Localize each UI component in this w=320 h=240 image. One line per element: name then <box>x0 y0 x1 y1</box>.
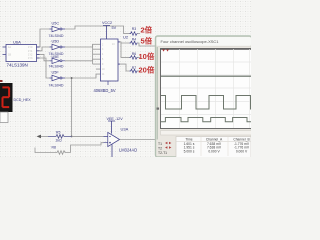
wire opamp output to scope <box>120 139 157 141</box>
svg-text:U3A: U3A <box>121 127 129 132</box>
svg-text:10倍: 10倍 <box>139 51 155 61</box>
svg-text:74LS04D: 74LS04D <box>49 34 64 38</box>
svg-text:T2: T2 <box>158 147 162 151</box>
wire U5F junction down to R5 node <box>71 78 73 136</box>
wire decoder pin1 to U5C input <box>37 29 50 47</box>
svg-text:1kΩ: 1kΩ <box>56 139 63 143</box>
VEE power symbol <box>107 117 124 134</box>
svg-text:VEE -12V: VEE -12V <box>107 117 124 121</box>
trace channel C square <box>161 118 251 122</box>
svg-text:R8: R8 <box>52 146 56 150</box>
svg-text:R5: R5 <box>56 131 60 135</box>
wire R5 node to opamp plus input <box>72 135 104 137</box>
svg-text:U5E: U5E <box>52 55 60 59</box>
wire U2 left pin bus <box>93 44 101 69</box>
wire R8 to opamp minus input <box>71 143 104 153</box>
wire U5E output to U2 <box>65 59 101 61</box>
trace channel A flat <box>161 75 251 77</box>
svg-text:U6A: U6A <box>13 40 21 45</box>
wire R4 right to scope <box>138 43 157 46</box>
resistor R8 <box>35 146 71 155</box>
svg-text:R6: R6 <box>132 52 136 56</box>
svg-text:LM324AD: LM324AD <box>119 148 137 153</box>
scope scrollbar <box>161 131 252 136</box>
resistor R6 <box>130 52 138 59</box>
resistor R3 <box>130 27 138 35</box>
inverter U5E <box>49 55 66 68</box>
schematic background <box>0 0 251 157</box>
svg-text:1Y3: 1Y3 <box>28 57 33 60</box>
wire opamp output rising along window edge <box>156 47 158 140</box>
svg-text:5倍: 5倍 <box>141 36 153 46</box>
svg-text:0.000 V: 0.000 V <box>236 150 248 154</box>
graph grid <box>161 49 251 128</box>
cursor marker T1 <box>162 50 165 52</box>
op-amp U3A <box>104 127 138 158</box>
svg-text:U5F: U5F <box>52 70 60 74</box>
chip U2 4068BD <box>94 34 129 93</box>
wire U5C output top route to R3 <box>65 26 130 34</box>
wire U2 right pin to R7 <box>118 64 130 71</box>
oscilloscope window XSC1 <box>156 36 252 157</box>
svg-text:Four channel oscilloscope-XSC1: Four channel oscilloscope-XSC1 <box>161 39 220 44</box>
svg-text:Channel_B: Channel_B <box>233 137 250 141</box>
svg-text:1Y2: 1Y2 <box>28 53 33 56</box>
wire branch to R6 <box>121 43 130 57</box>
svg-text:1B: 1B <box>8 53 11 56</box>
inverter U5C <box>49 22 66 39</box>
scope graph area <box>161 49 252 129</box>
svg-text:1Y0: 1Y0 <box>28 46 33 49</box>
svg-text:74LS04D: 74LS04D <box>49 64 64 68</box>
resistor R5 <box>48 131 72 143</box>
svg-text:74LS139N: 74LS139N <box>7 63 28 68</box>
cursor marker T2 <box>166 50 169 52</box>
wire decoder pin4 to U5F input <box>37 58 50 78</box>
wire R3 right to scope <box>138 33 141 35</box>
wire U5D output to U2 <box>65 44 101 47</box>
svg-text:R7: R7 <box>132 66 136 70</box>
wire R7 right <box>138 70 141 72</box>
svg-text:1Y1: 1Y1 <box>28 50 33 53</box>
svg-text:Time: Time <box>185 137 192 141</box>
wire R6 right <box>138 56 141 58</box>
svg-text:1A: 1A <box>8 46 11 49</box>
svg-text:20倍: 20倍 <box>139 64 155 74</box>
T1 T2 controls <box>158 142 167 155</box>
wire decoder pin2 to U5D input <box>37 47 50 51</box>
VCC2 power symbol <box>102 21 117 39</box>
svg-text:T2-T1: T2-T1 <box>158 151 167 155</box>
svg-text:U5D: U5D <box>52 39 60 43</box>
svg-text:VCC2: VCC2 <box>102 21 112 25</box>
svg-text:2倍: 2倍 <box>141 25 153 35</box>
resistor R7 <box>130 66 138 73</box>
svg-text:R3: R3 <box>132 27 136 31</box>
resistor R4 <box>130 38 138 45</box>
input arrow terminal <box>37 135 49 139</box>
trace channel B square <box>161 96 251 110</box>
svg-text:R4: R4 <box>132 38 136 42</box>
inverter U5F <box>49 70 66 87</box>
svg-text:U2: U2 <box>123 34 129 39</box>
inverter U5D <box>49 39 66 56</box>
svg-text:Channel_A: Channel_A <box>206 137 223 141</box>
svg-text:74LS04D: 74LS04D <box>49 84 64 88</box>
decoder U6A <box>3 40 40 68</box>
svg-text:0.000 V: 0.000 V <box>208 150 220 154</box>
svg-text:5V: 5V <box>112 26 117 30</box>
svg-text:DCD_HEX: DCD_HEX <box>14 98 32 102</box>
junction dot U5F <box>71 77 73 79</box>
svg-text:U5C: U5C <box>52 22 60 26</box>
channel marker on window edge <box>157 108 160 110</box>
svg-text:T1: T1 <box>158 142 162 146</box>
seven segment display DCD_HEX <box>0 80 31 123</box>
wire decoder pin3 to U5E input <box>37 54 50 60</box>
wire U2 output to R4 <box>118 42 130 43</box>
junction dot R5 node <box>71 135 73 137</box>
svg-text:5.000 s: 5.000 s <box>184 150 195 154</box>
wire U5F output to U2 <box>65 74 101 78</box>
svg-text:4068BD_5V: 4068BD_5V <box>94 88 116 93</box>
scope cursor readout table <box>158 137 251 158</box>
